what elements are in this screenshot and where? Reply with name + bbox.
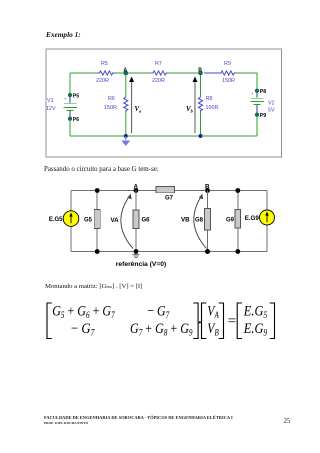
matrix bracket left: [47, 303, 52, 339]
paragraph 2: [45, 283, 142, 290]
vector V bracket left: [202, 303, 207, 339]
svg-text:=: =: [228, 313, 236, 329]
wire right vertical lower: [266, 225, 268, 252]
conductance G8: [195, 191, 211, 252]
conductance G5: [84, 191, 100, 252]
current source E.G5: [49, 211, 79, 227]
svg-text:E.G5: E.G5: [49, 217, 63, 223]
wire right vertical lower: [256, 115, 258, 136]
svg-text:220R: 220R: [152, 78, 165, 84]
current source E.G9: [245, 210, 275, 225]
junction G5 top: [95, 188, 100, 193]
svg-text:A: A: [134, 183, 139, 190]
vector I bracket left: [237, 303, 242, 339]
svg-text:R8: R8: [206, 96, 213, 102]
svg-text:E.G5: E.G5: [243, 304, 268, 321]
multiplication dot: [199, 321, 201, 323]
vector V bracket right: [219, 303, 224, 339]
wire left vertical lower: [69, 119, 71, 136]
svg-text:V1: V1: [47, 98, 54, 104]
svg-text:referência (V=0): referência (V=0): [116, 261, 166, 268]
wire top A-R7: [116, 72, 152, 74]
svg-text:V2: V2: [268, 101, 275, 107]
svg-text:VB: VB: [207, 321, 219, 338]
wire left vertical: [70, 191, 72, 211]
vector I bracket right: [270, 303, 275, 339]
arrow VA (curved): [111, 194, 134, 249]
svg-text:VB: VB: [181, 217, 190, 224]
arrow VB (curved): [181, 194, 207, 249]
resistor R8 (vertical): [200, 75, 202, 136]
svg-text:P6: P6: [73, 117, 79, 123]
node A: [124, 67, 128, 75]
node B: [205, 183, 210, 193]
node A: [134, 183, 139, 193]
page number: [284, 418, 291, 425]
junction G8 bottom: [205, 249, 210, 254]
svg-text:R6: R6: [108, 96, 115, 102]
node B: [198, 67, 202, 75]
matrix bracket right: [193, 303, 198, 339]
svg-text:P8: P8: [260, 89, 266, 95]
svg-text:5V: 5V: [268, 108, 275, 114]
junction (200,136): [199, 134, 203, 138]
svg-text:G7: G7: [165, 195, 174, 201]
arrow Va: [129, 77, 142, 134]
svg-text:− G7: − G7: [71, 321, 95, 338]
junction G9 bottom: [235, 249, 240, 254]
battery V1: [64, 95, 78, 119]
svg-text:A: A: [124, 67, 128, 73]
conductance G7: [156, 186, 175, 201]
title "Exemplo 1:": [46, 30, 81, 39]
wire top: [70, 72, 98, 74]
svg-text:100R: 100R: [206, 105, 219, 111]
svg-text:150R: 150R: [104, 105, 117, 111]
svg-text:E.G9: E.G9: [243, 321, 268, 338]
wire bottom: [71, 251, 267, 253]
resistor R5: [98, 71, 116, 75]
svg-text:− G7: − G7: [147, 304, 169, 321]
node P9: [255, 113, 266, 119]
svg-text:G7 + G8 + G9: G7 + G8 + G9: [130, 321, 193, 338]
svg-text:G6: G6: [142, 218, 151, 224]
conductance G9: [226, 191, 241, 252]
resistor R7: [152, 71, 168, 75]
svg-text:G5 + G6 + G7: G5 + G6 + G7: [52, 304, 115, 321]
ground: [121, 136, 130, 146]
svg-text:G8: G8: [195, 218, 204, 224]
svg-text:B: B: [205, 183, 210, 190]
svg-text:R7: R7: [155, 61, 162, 67]
svg-text:G5: G5: [84, 218, 93, 224]
node P5: [68, 93, 79, 99]
arrow Vb: [186, 77, 198, 134]
paragraph 1: [44, 166, 159, 173]
svg-text:VA: VA: [207, 304, 219, 321]
svg-text:B: B: [198, 67, 202, 73]
wire bottom: [70, 135, 257, 137]
svg-text:220R: 220R: [96, 78, 109, 84]
footer line 2: [44, 421, 88, 425]
conductance G6: [133, 191, 150, 252]
svg-text:G9: G9: [226, 218, 235, 224]
svg-text:VA: VA: [111, 217, 120, 224]
svg-text:E.G9: E.G9: [245, 215, 260, 222]
battery V2: [251, 90, 265, 115]
wire left vertical: [69, 73, 71, 95]
wire left vertical lower: [70, 226, 72, 251]
junction G6 bottom: [134, 249, 139, 254]
svg-text:P5: P5: [73, 93, 79, 99]
svg-text:P9: P9: [260, 113, 266, 119]
junction (126,136): [124, 134, 128, 138]
junction G9 top: [235, 188, 240, 193]
wire right vertical: [266, 191, 268, 211]
node P6: [68, 117, 79, 123]
junction G5 bottom: [95, 249, 100, 254]
node P8: [255, 89, 266, 95]
footer line 1: [44, 415, 233, 420]
screenshot frame: [46, 49, 282, 157]
svg-text:R9: R9: [224, 61, 231, 67]
wire top: [71, 190, 267, 192]
resistor R6 (vertical): [125, 75, 127, 136]
svg-text:R5: R5: [101, 61, 108, 67]
wire top R9-corner: [236, 73, 257, 90]
svg-text:150R: 150R: [222, 78, 235, 84]
wire top R7-B: [168, 72, 201, 74]
svg-text:12V: 12V: [46, 106, 56, 112]
resistor R9: [204, 71, 236, 75]
ground reference mark: [133, 255, 140, 258]
